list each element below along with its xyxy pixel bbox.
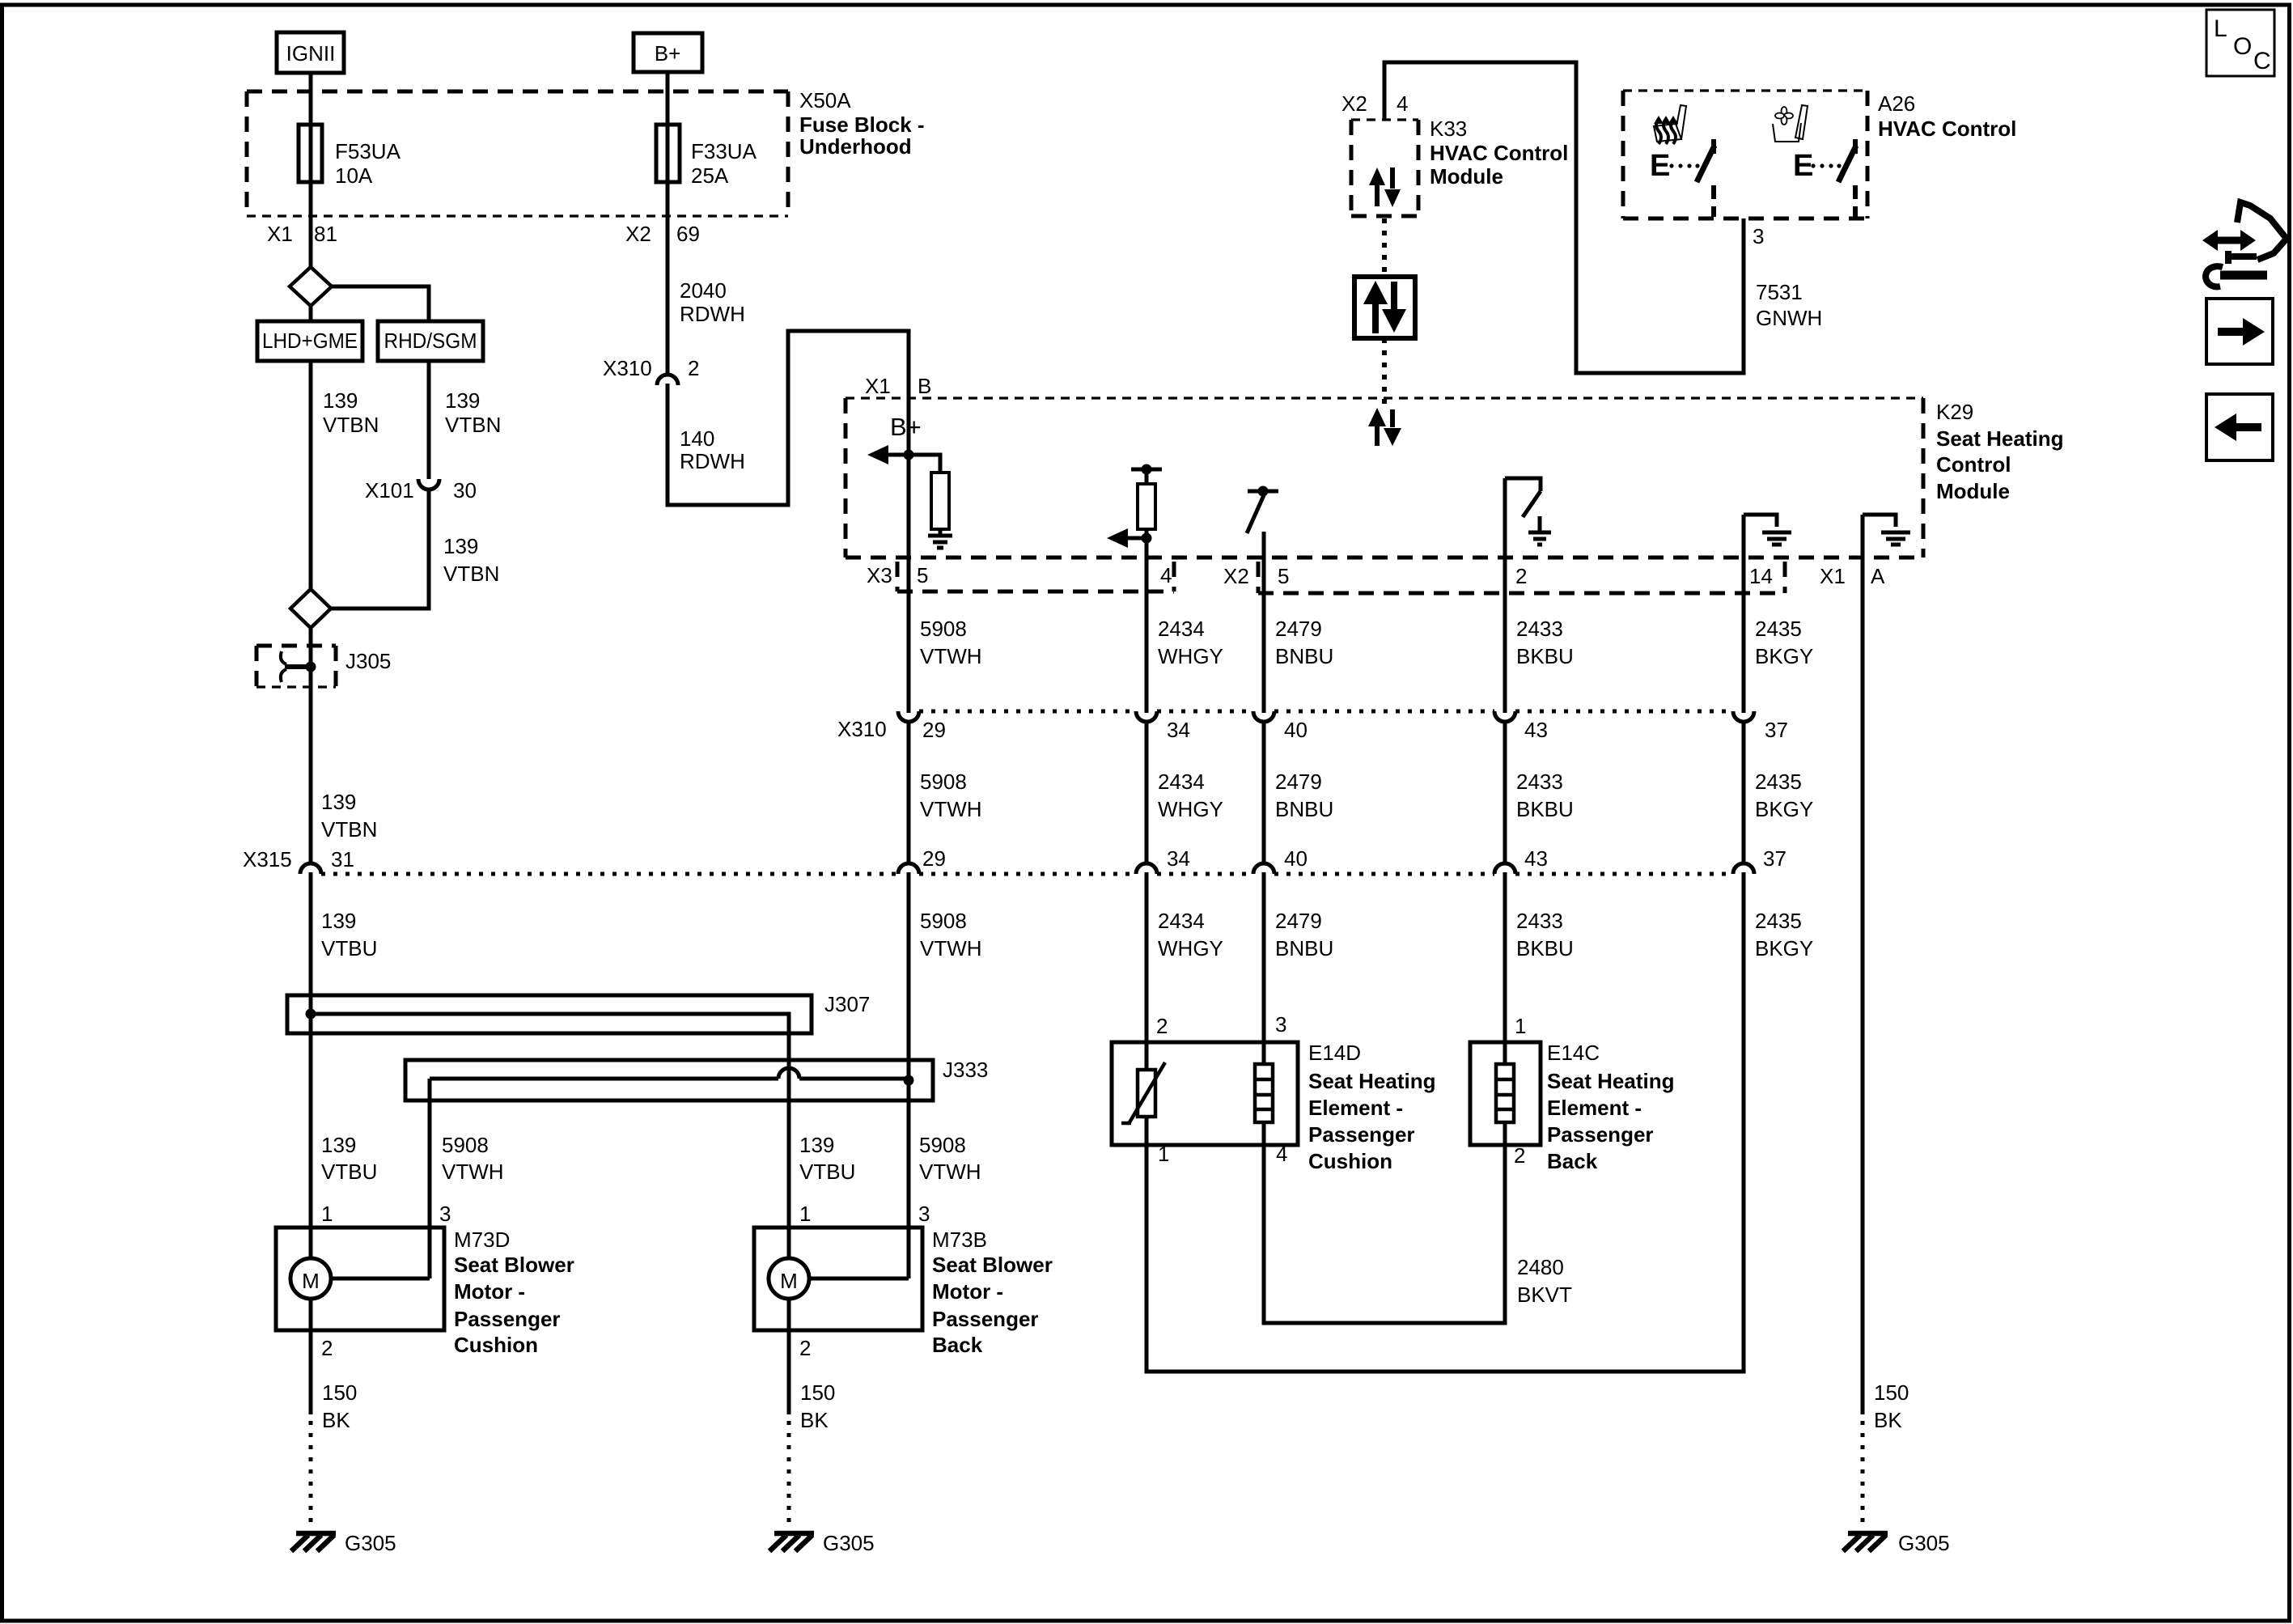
splice pack J307 box [287,995,812,1033]
K33 internal up/down arrows [1369,167,1401,207]
svg-text:GNWH: GNWH [1756,306,1822,330]
fuse F53UA 10A [299,125,322,182]
connector X315 row arcs [300,863,1754,874]
svg-text:5: 5 [917,563,928,587]
svg-text:5908: 5908 [920,770,967,794]
K29 internal switch to ground on BKBU output [1505,478,1551,545]
node B+ power box [634,33,702,72]
wire 139 VTBN LHD+GME down through J305/X315/J307 to motor M73D pin 1 and pin 2 down [309,361,313,1414]
svg-text:34: 34 [1167,846,1190,871]
svg-text:139: 139 [443,534,478,558]
svg-text:Control: Control [1936,452,2011,477]
connector X101 pin 30 arc [418,479,439,490]
wire diamond1 bottom to LHD+GME [309,306,313,321]
splice J333 wire hop arc [778,1068,799,1079]
svg-text:X310: X310 [603,356,652,380]
svg-text:3: 3 [1753,224,1764,248]
K29 internal switch on BNBU output [1247,486,1278,534]
svg-text:J333: J333 [943,1058,988,1082]
svg-text:VTBN: VTBN [445,413,501,437]
option box RHD/SGM [378,321,483,361]
svg-text:X50A: X50A [799,88,851,112]
svg-text:BKGY: BKGY [1755,936,1813,960]
svg-text:Passenger: Passenger [1547,1122,1654,1147]
svg-text:Seat Blower: Seat Blower [454,1253,574,1277]
dotted ground leads to G305 [311,1421,1863,1526]
svg-text:43: 43 [1524,846,1548,871]
svg-text:2: 2 [1515,564,1527,588]
diamond splice node top [290,267,332,306]
svg-text:4: 4 [1397,91,1408,116]
svg-text:139: 139 [799,1133,834,1157]
svg-text:2435: 2435 [1755,770,1802,794]
svg-text:BKBU: BKBU [1516,936,1574,960]
svg-text:2433: 2433 [1516,909,1563,933]
svg-text:3: 3 [439,1202,451,1226]
svg-text:2: 2 [1156,1014,1168,1038]
svg-text:Seat Blower: Seat Blower [932,1253,1053,1277]
svg-text:2433: 2433 [1516,770,1563,794]
svg-text:Back: Back [932,1333,983,1357]
wire 2435 BKGY K29 X2-14 down, left to E14D pin 1 [1146,515,1744,1372]
svg-text:F53UA: F53UA [335,139,401,163]
left arrow legend box [2206,394,2273,460]
heating element symbol in E14D [1255,1064,1273,1122]
svg-text:Passenger: Passenger [454,1307,561,1331]
K29 internal B+ arrow and junction [867,445,914,464]
svg-text:X315: X315 [243,847,292,871]
right legend harness squiggle icon [2202,202,2287,286]
svg-text:Seat Heating: Seat Heating [1308,1069,1436,1093]
svg-text:RHD/SGM: RHD/SGM [384,329,477,353]
svg-text:X3: X3 [867,563,892,587]
right arrow legend box [2206,299,2273,364]
svg-text:5908: 5908 [442,1133,489,1157]
svg-text:2479: 2479 [1275,617,1322,641]
svg-text:2435: 2435 [1755,617,1802,641]
svg-text:VTBN: VTBN [323,413,379,437]
svg-text:2434: 2434 [1158,770,1205,794]
svg-text:43: 43 [1524,718,1548,742]
K29 internal ground on BKGY output pin 14 [1744,515,1791,545]
svg-text:B+: B+ [655,41,681,66]
svg-text:VTWH: VTWH [920,936,982,960]
svg-text:L: L [2214,15,2227,42]
svg-text:VTWH: VTWH [442,1160,504,1184]
connector strip X3 [897,562,1174,592]
A26 seat fan icon [1773,105,1808,142]
svg-text:E: E [1650,149,1670,183]
svg-text:HVAC Control: HVAC Control [1878,117,2016,141]
wire J307 internal bus and leg to M73B pin 1 and pin 2 down [311,1014,789,1414]
svg-text:Element -: Element - [1547,1096,1642,1120]
svg-text:5908: 5908 [920,617,967,641]
svg-text:VTBN: VTBN [443,562,499,586]
svg-text:E: E [1793,149,1813,183]
svg-text:29: 29 [922,846,946,871]
svg-text:E14D: E14D [1308,1041,1361,1065]
heating element E14D box [1112,1042,1298,1145]
svg-text:2: 2 [321,1336,333,1360]
svg-text:2433: 2433 [1516,617,1563,641]
svg-text:VTBU: VTBU [321,1160,377,1184]
svg-text:5: 5 [1278,564,1289,588]
svg-text:1: 1 [799,1202,811,1226]
splice pack J333 box [405,1060,933,1100]
connector X310 pin 2 arc [657,375,678,385]
svg-text:K29: K29 [1936,400,1973,424]
svg-text:G305: G305 [345,1531,396,1555]
svg-text:BNBU: BNBU [1275,644,1333,668]
svg-text:X2: X2 [1223,564,1249,588]
connector X315 dotted row [321,872,1733,876]
svg-text:BNBU: BNBU [1275,936,1333,960]
svg-text:Back: Back [1547,1149,1598,1173]
svg-text:J307: J307 [824,992,870,1016]
svg-text:J305: J305 [345,649,391,673]
svg-text:5908: 5908 [920,909,967,933]
svg-text:VTBU: VTBU [799,1160,855,1184]
svg-text:Cushion: Cushion [1308,1149,1392,1173]
svg-text:RDWH: RDWH [680,302,745,326]
svg-text:2040: 2040 [680,278,727,303]
svg-text:X2: X2 [625,222,651,246]
wire 5908 VTWH J333 to motor M73B pin 3 [809,1080,909,1278]
K29 internal resistor on WHGY output with top bar [1131,464,1162,530]
svg-text:BKGY: BKGY [1755,644,1813,668]
svg-text:BKGY: BKGY [1755,797,1813,821]
svg-text:BKVT: BKVT [1517,1283,1572,1307]
svg-text:14: 14 [1749,564,1773,588]
svg-text:M: M [302,1269,320,1293]
svg-text:2435: 2435 [1755,909,1802,933]
svg-text:150: 150 [1874,1380,1909,1405]
svg-text:Element -: Element - [1308,1096,1403,1120]
svg-text:81: 81 [314,222,337,246]
connector X310 row arcs [898,711,1754,722]
svg-text:BKBU: BKBU [1516,797,1574,821]
svg-text:2479: 2479 [1275,770,1322,794]
svg-text:2: 2 [1514,1143,1525,1168]
svg-text:M73B: M73B [932,1228,987,1252]
wire B+ feed through fuse F33UA to X310 pin 2 [666,72,670,373]
heating element symbol in E14C [1496,1064,1514,1122]
svg-text:Module: Module [1430,164,1503,189]
heating element E14C box [1470,1042,1541,1145]
connector X310 dotted row [919,710,1733,714]
connector strip X2 [1258,562,1785,593]
svg-text:2479: 2479 [1275,909,1322,933]
svg-text:VTBU: VTBU [321,936,377,960]
svg-text:1: 1 [321,1202,333,1226]
svg-text:10A: 10A [335,163,373,188]
svg-text:F33UA: F33UA [691,139,757,163]
svg-text:Passenger: Passenger [932,1307,1039,1331]
HVAC control A26 dashed box [1623,91,1867,218]
fuse block X50A dashed box [247,91,788,216]
svg-text:LHD+GME: LHD+GME [262,329,358,353]
svg-text:B+: B+ [890,413,922,441]
node IGNII power box [277,32,344,73]
svg-text:Motor -: Motor - [932,1279,1003,1304]
white gaps for inline connector bumps [664,374,672,383]
svg-text:M: M [780,1269,798,1293]
svg-text:E14C: E14C [1547,1041,1600,1065]
svg-text:B: B [918,374,931,398]
svg-text:69: 69 [676,222,700,246]
svg-text:139: 139 [321,909,356,933]
ground G305 middle [769,1533,814,1551]
K29 internal up/down arrows [1368,408,1401,446]
splice J333 junction dot [904,1075,914,1086]
svg-text:WHGY: WHGY [1158,936,1223,960]
svg-text:Seat Heating: Seat Heating [1936,426,2064,451]
wire diamond1 right to RHD/SGM [332,286,429,321]
svg-text:Underhood: Underhood [799,134,912,159]
svg-text:139: 139 [323,388,358,413]
svg-text:M73D: M73D [454,1228,510,1252]
svg-text:4: 4 [1160,563,1172,587]
svg-text:2480: 2480 [1517,1255,1564,1279]
svg-text:2434: 2434 [1158,617,1205,641]
K29 internal left arrow on WHGY output [1107,528,1152,548]
svg-text:140: 140 [680,426,714,451]
wire 139 VTBN RHD/SGM through X101 down and left to diamond2 [331,361,429,608]
svg-text:RDWH: RDWH [680,449,745,473]
wire J333 internal bus with hop over M73B pin1 wire [430,1077,909,1081]
svg-text:X1: X1 [267,222,293,246]
svg-text:X310: X310 [837,717,887,741]
svg-text:Seat Heating: Seat Heating [1547,1069,1675,1093]
wire 2480 BKVT E14D pin 4 to E14C pin 2 [1264,1122,1505,1323]
svg-text:4: 4 [1276,1142,1287,1166]
motor M73D box [276,1228,444,1330]
svg-text:BK: BK [322,1408,350,1432]
svg-text:34: 34 [1167,718,1190,742]
svg-text:VTWH: VTWH [920,644,982,668]
wire IGNII feed through fuse F53UA down to diamond [309,73,313,267]
svg-text:IGNII: IGNII [286,41,336,66]
svg-text:Fuse Block -: Fuse Block - [799,112,925,137]
svg-text:139: 139 [445,388,480,413]
svg-text:G305: G305 [1898,1531,1950,1555]
svg-text:VTBN: VTBN [321,817,377,842]
wire 5908 VTWH K29 X3-5 down to J333 splice [907,398,911,1080]
left legend arrow left [2215,413,2261,441]
svg-text:31: 31 [331,847,354,871]
svg-text:O: O [2233,33,2252,60]
svg-text:X1: X1 [865,374,891,398]
svg-text:3: 3 [1275,1012,1286,1037]
wire 2479 BNBU K29 X2-5 down to E14D pin 3 [1262,532,1266,1064]
wire 7531 GNWH A26 pin 3 to K33 X2-4 [1384,62,1744,373]
svg-text:40: 40 [1284,718,1308,742]
motor M73B circle with M [769,1258,809,1299]
thermistor in E14D [1121,1062,1165,1123]
svg-text:40: 40 [1284,846,1308,871]
svg-text:Passenger: Passenger [1308,1122,1415,1147]
option box LHD+GME [257,321,362,361]
HVAC control module K33 dashed box [1351,120,1418,216]
fuse F33UA 25A [656,125,680,182]
dotted serial data link K33 to arrow box to K29 [1382,218,1387,408]
svg-text:139: 139 [321,1133,356,1157]
wire 2433 BKBU K29 X2-2 down to E14C pin 1 [1503,478,1507,1064]
svg-text:A: A [1871,564,1885,588]
K29 internal ground on pin A output [1863,515,1910,545]
svg-text:X2: X2 [1341,91,1367,116]
svg-text:3: 3 [918,1202,930,1226]
svg-text:WHGY: WHGY [1158,644,1223,668]
svg-text:5908: 5908 [919,1133,966,1157]
right legend arrow right [2218,318,2265,346]
svg-text:25A: 25A [691,163,729,188]
wire 2434 WHGY K29 X3-4 down to E14D pin 2 [1145,529,1149,1070]
ground G305 right [1843,1533,1888,1551]
svg-text:2: 2 [688,356,699,380]
svg-text:VTWH: VTWH [919,1160,981,1184]
splice J307 junction dot [306,1009,316,1020]
flow arrow box internal up/down arrows [1363,281,1406,333]
A26 switch left with E [1669,139,1714,217]
motor M73B box [754,1228,922,1330]
svg-text:1: 1 [1515,1014,1526,1038]
svg-text:K33: K33 [1430,117,1467,141]
svg-text:150: 150 [322,1380,357,1405]
svg-text:X101: X101 [365,478,414,502]
A26 switch right with E [1811,139,1856,217]
svg-text:A26: A26 [1878,91,1915,116]
ground G305 left [291,1533,336,1551]
wire E14D pin 1 thermistor lower lead [1145,1117,1149,1145]
svg-text:VTWH: VTWH [920,797,982,821]
splice J305 dashed box [256,646,336,687]
svg-text:30: 30 [453,478,477,502]
LOC legend box [2206,10,2274,76]
svg-text:2: 2 [799,1336,811,1360]
svg-text:139: 139 [321,790,356,814]
splice J305 bus bar with hooks and junction dot [281,651,316,682]
A26 seat heat icon [1654,105,1686,144]
svg-text:2434: 2434 [1158,909,1205,933]
svg-text:BKBU: BKBU [1516,644,1574,668]
wire 150 BK K29 X1-A down to G305 [1861,515,1865,1414]
svg-text:G305: G305 [823,1531,875,1555]
svg-text:7531: 7531 [1756,280,1803,304]
K29 internal resistor to ground on B+ branch [909,455,952,548]
svg-text:BNBU: BNBU [1275,797,1333,821]
svg-text:Module: Module [1936,479,2010,503]
wire 5908 VTWH J333 left leg to motor M73D pin 3 [331,1079,430,1278]
svg-text:37: 37 [1765,718,1788,742]
motor M73D circle with M [290,1258,331,1299]
svg-text:Motor -: Motor - [454,1279,525,1304]
flow arrow box between K33 and K29 [1354,277,1415,338]
svg-text:HVAC Control: HVAC Control [1430,141,1568,165]
seat heating control module K29 dashed box [846,398,1923,558]
svg-text:Cushion: Cushion [454,1333,538,1357]
svg-text:X1: X1 [1820,564,1846,588]
svg-text:C: C [2253,48,2271,74]
svg-text:BK: BK [800,1408,829,1432]
svg-text:1: 1 [1158,1142,1169,1166]
diamond splice node bottom [290,589,331,628]
svg-text:150: 150 [800,1380,835,1405]
svg-text:WHGY: WHGY [1158,797,1223,821]
wire 140 RDWH from X310-2 down, right, up into K29 X1-B [668,331,909,505]
svg-text:29: 29 [922,718,946,742]
svg-text:BK: BK [1874,1408,1902,1432]
svg-text:37: 37 [1763,846,1787,871]
